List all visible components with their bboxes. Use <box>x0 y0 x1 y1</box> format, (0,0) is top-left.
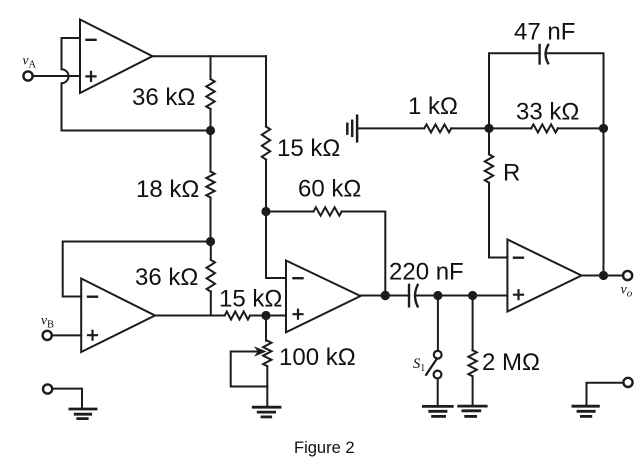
node B <box>207 238 214 245</box>
node A <box>207 127 214 134</box>
wire U1 feedback vertical with hop <box>62 38 69 131</box>
wire U1 output <box>153 55 267 57</box>
svg-text:S1: S1 <box>413 356 425 374</box>
svg-text:36 kΩ: 36 kΩ <box>132 84 195 111</box>
wire 33k to node I <box>558 127 604 129</box>
svg-text:1 kΩ: 1 kΩ <box>408 93 458 120</box>
svg-text:vo: vo <box>621 283 633 300</box>
svg-text:47 nF: 47 nF <box>514 19 575 46</box>
resistor R4 15k horizontal <box>225 312 266 320</box>
svg-text:36 kΩ: 36 kΩ <box>135 264 198 291</box>
svg-text:15 kΩ: 15 kΩ <box>219 286 282 313</box>
wire U1 - input stub <box>62 37 81 39</box>
svg-text:60 kΩ: 60 kΩ <box>298 176 361 203</box>
node C <box>262 312 269 319</box>
resistor R7 2M <box>468 296 476 407</box>
wire U2 output <box>155 315 225 317</box>
capacitor 220nF <box>409 285 438 307</box>
wire U3 output <box>361 295 410 297</box>
svg-text:2 MΩ: 2 MΩ <box>482 349 540 376</box>
resistor R1 36k <box>206 56 214 130</box>
terminal vB <box>43 331 52 340</box>
svg-text:33 kΩ: 33 kΩ <box>516 99 579 126</box>
node H <box>485 125 492 132</box>
wire feedback bottom <box>62 130 211 132</box>
node E (U3 output) <box>382 292 389 299</box>
wire 1k to node H <box>451 127 489 129</box>
svg-text:18 kΩ: 18 kΩ <box>136 176 199 203</box>
ground (2M) <box>459 406 487 416</box>
resistor R2 18k <box>206 131 214 242</box>
wire terminal to ground <box>587 383 624 406</box>
resistor R3 36k <box>207 242 215 316</box>
node D <box>262 208 269 215</box>
wire vB to U2 + input <box>52 334 81 336</box>
terminal vo <box>623 271 632 280</box>
wire vA to U1 + input <box>33 75 80 77</box>
wire R to U4 minus <box>489 257 507 259</box>
svg-text:R: R <box>503 160 520 187</box>
ground (pot) <box>253 387 280 417</box>
ground (bottom-left) <box>70 409 96 419</box>
wire node D to U3 minus <box>266 212 286 279</box>
resistor R6 60k <box>266 207 385 295</box>
sideways ground (1k input) <box>347 116 357 142</box>
resistor 33k <box>531 124 558 132</box>
op-amp U3 <box>286 261 361 333</box>
wire node B to U2 minus <box>63 242 211 297</box>
wire U4 output <box>582 275 624 277</box>
switch S1 <box>426 296 442 407</box>
node G <box>469 292 476 299</box>
svg-text:Figure 2: Figure 2 <box>294 439 355 457</box>
terminal bottom-right <box>623 378 632 387</box>
wire node H to 33k <box>489 127 531 129</box>
terminal bottom-left <box>43 384 52 393</box>
svg-text:100 kΩ: 100 kΩ <box>279 344 356 371</box>
resistor R5 15k vertical <box>262 56 270 211</box>
svg-text:vB: vB <box>41 313 54 331</box>
ground (switch) <box>423 406 452 416</box>
ground (bottom-right) <box>573 406 599 416</box>
wire terminal to ground <box>52 389 82 407</box>
potentiometer 100k <box>231 316 272 387</box>
resistor R <box>485 128 493 257</box>
wire ground to 1k <box>357 127 424 129</box>
op-amp U4 <box>507 240 581 312</box>
wire feedback up <box>603 128 605 275</box>
capacitor 47nF loop <box>489 45 604 128</box>
svg-text:15 kΩ: 15 kΩ <box>277 135 340 162</box>
wire node G to U4 + input <box>473 295 508 297</box>
terminal vA <box>23 71 32 80</box>
node I <box>600 125 607 132</box>
resistor 1k <box>424 124 451 132</box>
svg-text:vA: vA <box>23 53 37 71</box>
wire to node G <box>438 295 473 297</box>
node J (output) <box>600 272 607 279</box>
node F (after cap) <box>434 292 441 299</box>
wire node C to U3 + input <box>266 315 286 317</box>
op-amp U2 <box>81 279 155 353</box>
svg-text:220 nF: 220 nF <box>389 259 464 286</box>
op-amp U1 <box>80 20 153 94</box>
